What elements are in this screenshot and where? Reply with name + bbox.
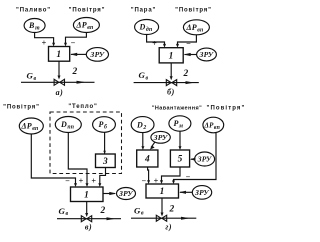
svg-text:б): б) bbox=[167, 88, 175, 97]
svg-text:−: − bbox=[71, 39, 76, 48]
svg-text:"Навантаження": "Навантаження" bbox=[152, 106, 202, 112]
svg-text:5: 5 bbox=[178, 155, 183, 165]
svg-text:4: 4 bbox=[144, 155, 150, 165]
svg-text:ЗРУ: ЗРУ bbox=[153, 133, 168, 142]
svg-text:"Паливо": "Паливо" bbox=[16, 7, 51, 13]
svg-text:"Пара": "Пара" bbox=[131, 8, 156, 14]
svg-text:+: + bbox=[152, 39, 157, 48]
svg-text:ЗРУ: ЗРУ bbox=[197, 155, 212, 164]
svg-text:+: + bbox=[42, 39, 47, 48]
svg-text:2: 2 bbox=[182, 69, 188, 79]
svg-text:3: 3 bbox=[102, 157, 108, 167]
svg-text:1: 1 bbox=[169, 52, 174, 62]
svg-text:г): г) bbox=[165, 222, 172, 231]
svg-text:"Повітря": "Повітря" bbox=[3, 105, 40, 111]
svg-text:в): в) bbox=[85, 223, 92, 232]
svg-text:ЗРУ: ЗРУ bbox=[90, 50, 105, 59]
svg-text:2: 2 bbox=[168, 204, 174, 214]
svg-text:−: − bbox=[186, 39, 191, 48]
svg-text:ЗРУ: ЗРУ bbox=[199, 50, 214, 59]
svg-text:+: + bbox=[79, 177, 84, 186]
svg-text:"Тепло": "Тепло" bbox=[68, 104, 97, 110]
svg-text:−: − bbox=[65, 177, 70, 186]
svg-text:2: 2 bbox=[71, 67, 77, 77]
svg-text:1: 1 bbox=[84, 190, 89, 200]
svg-text:ЗРУ: ЗРУ bbox=[194, 188, 209, 197]
svg-text:1: 1 bbox=[160, 187, 165, 197]
svg-text:"Повітря": "Повітря" bbox=[175, 8, 212, 14]
svg-text:"Повітря": "Повітря" bbox=[207, 106, 246, 112]
svg-text:ЗРУ: ЗРУ bbox=[118, 189, 133, 198]
svg-text:а): а) bbox=[56, 88, 64, 97]
svg-text:−: − bbox=[186, 172, 191, 181]
svg-text:+: + bbox=[91, 177, 96, 186]
svg-text:2: 2 bbox=[99, 206, 105, 216]
svg-text:1: 1 bbox=[56, 50, 61, 60]
svg-text:"Повітря": "Повітря" bbox=[69, 7, 106, 13]
